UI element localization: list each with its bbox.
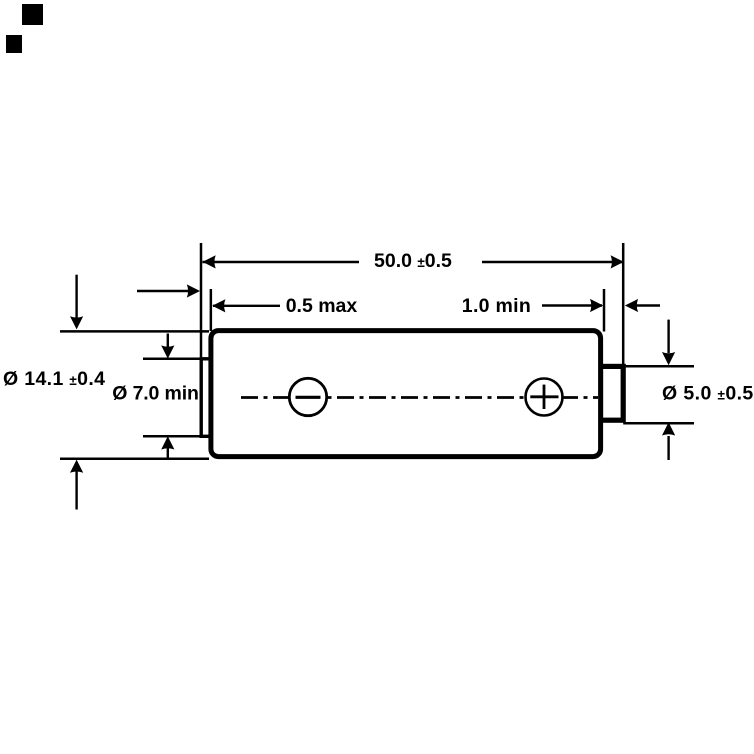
svg-text:0.5 max: 0.5 max (286, 295, 358, 317)
svg-text:50.0 ±0.5: 50.0 ±0.5 (374, 250, 452, 272)
svg-text:1.0 min: 1.0 min (462, 295, 531, 317)
svg-text:Ø 5.0 ±0.5: Ø 5.0 ±0.5 (662, 383, 754, 405)
svg-text:Ø 14.1 ±0.4: Ø 14.1 ±0.4 (3, 368, 105, 390)
svg-text:Ø 7.0 min: Ø 7.0 min (112, 383, 198, 405)
